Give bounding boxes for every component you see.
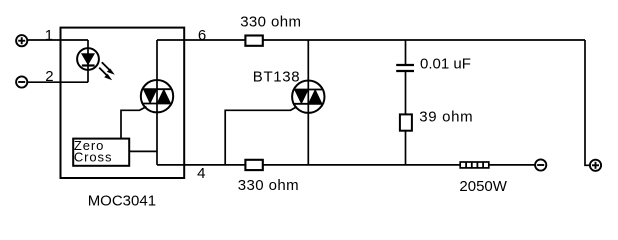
LED emission arrow 1 bbox=[102, 62, 115, 75]
svg-text:BT138: BT138 bbox=[253, 68, 300, 85]
wire BT138 main vertical bbox=[307, 40, 309, 165]
svg-text:0.01 uF: 0.01 uF bbox=[420, 55, 471, 72]
capacitor C1 bbox=[396, 65, 414, 71]
load element 2050W heater bbox=[460, 162, 489, 168]
label Zero Cross bbox=[74, 138, 112, 165]
opto triac (detector) bbox=[141, 80, 173, 112]
wire snubber branch vertical top bbox=[405, 40, 407, 65]
wire terminal P1 to LED anode (pin 1) bbox=[27, 39, 88, 41]
LED emission arrow 2 bbox=[99, 68, 112, 81]
resistor R1 330 ohm bbox=[245, 36, 262, 46]
wire bottom rail R2 to load element bbox=[263, 164, 460, 166]
wire zero-cross box to triac MT (pin 4 line) bbox=[129, 150, 157, 152]
wire load element to terminal P3 bbox=[489, 164, 535, 166]
LED D1 bbox=[77, 48, 99, 70]
wire LED vertical bbox=[87, 40, 89, 82]
svg-text:Cross: Cross bbox=[74, 150, 112, 165]
terminal P1 (+) input bbox=[16, 35, 27, 46]
svg-text:MOC3041: MOC3041 bbox=[88, 192, 156, 209]
opto-coupler U1 package box bbox=[61, 28, 185, 178]
svg-text:6: 6 bbox=[198, 27, 206, 44]
svg-text:330 ohm: 330 ohm bbox=[238, 177, 299, 194]
wire opto triac gate to zero-cross box bbox=[121, 107, 146, 139]
wire pin 6 out to resistor R1 bbox=[157, 39, 245, 41]
wire R1 to top rail, BT138 MT2 and snubber bbox=[263, 39, 585, 41]
wire pin 4 out to resistor R2 bbox=[157, 164, 245, 166]
svg-text:1: 1 bbox=[45, 27, 53, 44]
svg-text:2: 2 bbox=[45, 68, 53, 85]
wire BT138 gate bbox=[225, 107, 297, 165]
triac Q1 BT138 bbox=[292, 81, 324, 113]
terminal P3 (-) mains bbox=[535, 159, 546, 170]
wire top rail right corner down to terminal P4 bbox=[585, 40, 590, 165]
terminal P2 (-) input bbox=[16, 76, 27, 87]
svg-text:39 ohm: 39 ohm bbox=[419, 108, 473, 125]
terminal P4 (+) mains bbox=[590, 160, 601, 171]
zero cross box bbox=[73, 139, 129, 166]
svg-text:4: 4 bbox=[197, 165, 205, 182]
svg-text:330 ohm: 330 ohm bbox=[240, 13, 301, 30]
wire capacitor to resistor R3 bbox=[405, 71, 407, 114]
wire terminal P2 to LED cathode (pin 2) bbox=[27, 81, 88, 83]
svg-text:2050W: 2050W bbox=[459, 178, 507, 195]
wire R3 to bottom rail bbox=[405, 131, 407, 165]
resistor R2 330 ohm bbox=[245, 160, 262, 170]
resistor R3 39 ohm bbox=[400, 114, 412, 130]
wire opto triac main vertical (pin 6 to pin 4 path) bbox=[156, 40, 158, 165]
